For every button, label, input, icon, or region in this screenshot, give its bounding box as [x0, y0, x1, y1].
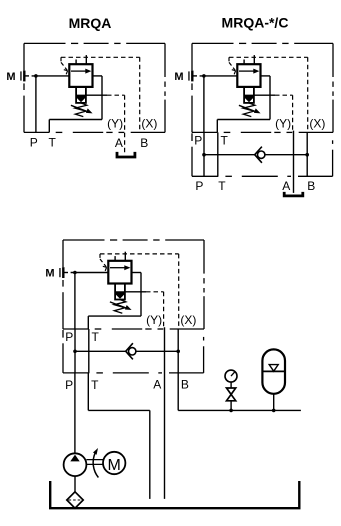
drain line Y (dashed) D3 [125, 292, 164, 328]
pilot vent line X (dashed) D1 [61, 55, 140, 131]
svg-text:(Y): (Y) [107, 116, 123, 130]
wire: M gauge line to valve inlet D2 [200, 75, 238, 77]
drain line Y (dashed) D1 [86, 95, 125, 152]
wire: B/X line to accumulator rail (D3) [178, 373, 301, 411]
svg-text:(Y): (Y) [146, 313, 162, 327]
wire: P riser D1 [35, 76, 37, 132]
pilot vent line X (dashed) D2 [229, 55, 308, 131]
svg-text:P: P [194, 134, 202, 148]
wire: shut-off valve to rail [230, 401, 232, 411]
junction: gauge branch [229, 409, 233, 413]
relief valve body D2 [237, 64, 260, 87]
wire: pump suction [74, 476, 76, 492]
accumulator [262, 349, 285, 393]
wire: B line through section D2 [306, 132, 308, 176]
svg-text:A: A [153, 377, 161, 391]
wire: gauge to shut-off valve [230, 382, 232, 388]
svg-text:T: T [221, 134, 229, 148]
svg-text:P: P [30, 136, 38, 150]
valve poppet/seat cartridge D1 [76, 87, 86, 103]
svg-text:T: T [218, 179, 226, 193]
junction: P line / gauge line D3 [73, 271, 77, 275]
junction: P line / gauge line D2 [202, 74, 206, 78]
wire: M gauge line to valve inlet D1 [32, 75, 70, 77]
wire: T line to tank (D3) [88, 373, 150, 499]
adjustable spring D3 [110, 300, 132, 314]
wire: valve outlet to T D1 [49, 76, 102, 132]
pilot vent line X (dashed) D3 [100, 252, 179, 328]
plug on port A/Y D1 [117, 152, 135, 157]
shaft pump-motor [86, 460, 103, 465]
svg-text:(Y): (Y) [275, 116, 291, 130]
wire: A line to tank (D3) [164, 327, 166, 499]
svg-text:M: M [108, 457, 121, 474]
wire: accumulator to rail [273, 394, 275, 411]
svg-text:(X): (X) [141, 116, 157, 130]
svg-text:M: M [6, 71, 15, 83]
module enclosure D2 (subplate boundary, chain line) [192, 43, 333, 132]
junction: P line / gauge line D1 [34, 74, 38, 78]
suction filter [67, 492, 83, 508]
svg-text:M: M [174, 71, 183, 83]
lower section enclosure D3 [63, 330, 204, 373]
svg-text:(X): (X) [180, 313, 196, 327]
svg-text:A: A [282, 179, 290, 193]
svg-text:B: B [140, 136, 148, 150]
gauge port M D2 [174, 71, 197, 83]
plug on port A D2 [284, 192, 303, 196]
pilot line to spring chamber (dashed with arrow) D3 [100, 254, 107, 271]
junction: B / check line D2 [305, 153, 309, 157]
wire: P riser D3 [74, 273, 76, 330]
check valve D3 [126, 343, 136, 359]
svg-text:T: T [92, 330, 100, 344]
svg-text:P: P [65, 330, 73, 344]
pilot line to spring chamber (dashed with arrow) D1 [61, 57, 68, 74]
module enclosure D3 (subplate boundary, chain line) [63, 240, 204, 329]
wire: valve outlet to T D3 [88, 273, 141, 330]
valve poppet/seat cartridge D2 [244, 87, 254, 103]
junction: accumulator branch [272, 409, 276, 413]
wire: P riser D2 [203, 76, 205, 132]
relief valve body D1 [69, 64, 92, 87]
shut-off valve [227, 388, 236, 401]
wire: B line through section D3 [177, 329, 179, 373]
valve poppet/seat cartridge D3 [115, 284, 125, 300]
wire: P line to pump (D3) [74, 373, 76, 453]
svg-text:B: B [307, 179, 315, 193]
adjustable spring D1 [71, 103, 93, 117]
check valve D2 [255, 147, 265, 163]
wire: T line through section D2 [217, 132, 219, 176]
junction: P / check line D3 [73, 350, 77, 354]
rotation arrow [93, 448, 98, 478]
wire: valve outlet to T D2 [217, 76, 270, 132]
svg-text:P: P [195, 179, 203, 193]
wire: M gauge line to valve inlet D3 [71, 272, 109, 274]
electric motor M1 [103, 452, 125, 474]
wire: check line D2 [204, 154, 255, 156]
drain line Y (dashed) D2 [254, 95, 293, 131]
gauge port M D1 [6, 71, 29, 83]
svg-text:P: P [65, 378, 73, 392]
svg-text:A: A [115, 136, 123, 150]
pressure gauge [225, 370, 237, 382]
wire: check line D3 [75, 350, 126, 352]
svg-text:B: B [181, 377, 189, 391]
tank [50, 481, 299, 508]
svg-text:MRQA: MRQA [69, 15, 112, 31]
pilot line to spring chamber (dashed with arrow) D2 [229, 57, 236, 74]
wire: A line through section D2 [293, 131, 295, 193]
wire: T line through section D3 [88, 329, 90, 373]
svg-text:T: T [49, 136, 57, 150]
junction: B / check line D3 [176, 350, 180, 354]
svg-text:T: T [91, 378, 99, 392]
gauge port M D3 [45, 267, 68, 279]
wire: P line through section D3 [74, 329, 76, 373]
relief valve body D3 [108, 261, 131, 284]
svg-text:(X): (X) [309, 116, 325, 130]
pump P1 [64, 453, 87, 476]
adjustable spring D2 [239, 103, 261, 117]
wire: P line through section D2 [203, 132, 205, 176]
module enclosure D1 (subplate boundary, chain line) [24, 43, 165, 132]
svg-text:MRQA-*/C: MRQA-*/C [222, 15, 289, 31]
lower section enclosure D2 [192, 133, 333, 176]
junction: P / check line D2 [202, 153, 206, 157]
svg-text:M: M [45, 268, 54, 280]
